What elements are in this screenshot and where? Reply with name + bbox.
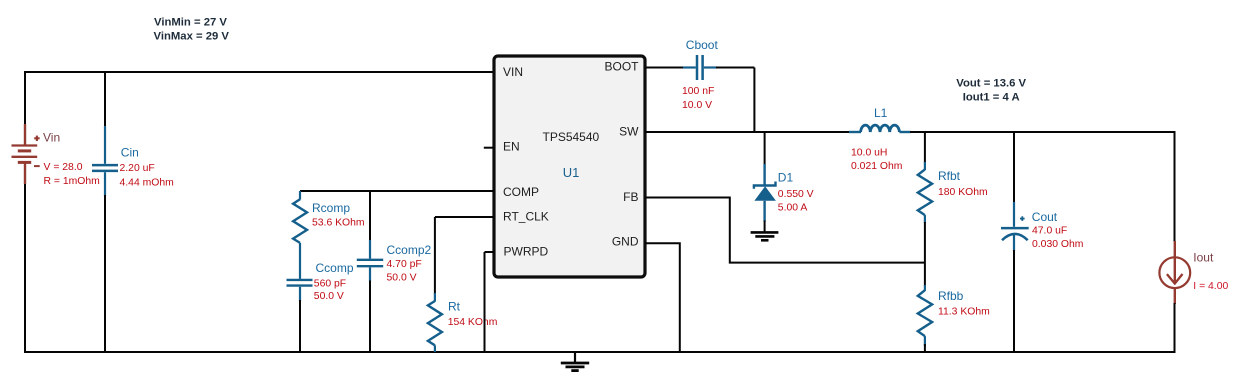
wire Vout rail (L1 to Iout) — [910, 131, 1175, 133]
wire Cout branch lower — [1013, 250, 1015, 352]
wire BOOT line left segment — [645, 67, 684, 69]
svg-text:Rcomp: Rcomp — [312, 201, 350, 215]
svg-text:Vin: Vin — [43, 131, 60, 145]
wire Cboot down to SW node — [753, 68, 755, 133]
svg-text:TPS54540: TPS54540 — [543, 130, 600, 144]
wire Rfbb top lead — [924, 285, 926, 291]
svg-text:Rt: Rt — [448, 299, 461, 313]
svg-text:50.0 V: 50.0 V — [387, 273, 417, 284]
op-amp U1 IC body TPS54540 — [494, 56, 645, 277]
wire Rfbb bottom lead — [924, 336, 926, 346]
inductor L1 — [849, 125, 911, 132]
wire Ccomp branch lower — [299, 300, 301, 352]
svg-text:50.0 V: 50.0 V — [314, 291, 344, 302]
svg-text:FB: FB — [623, 190, 638, 204]
svg-text:Cout: Cout — [1032, 210, 1058, 224]
svg-text:5.00 A: 5.00 A — [778, 202, 808, 213]
svg-text:D1: D1 — [778, 171, 794, 185]
wire FB line — [645, 198, 925, 263]
wire Ccomp2 branch upper — [369, 191, 371, 241]
wire GND line — [645, 243, 680, 352]
wire Rt branch upper — [434, 217, 436, 294]
wire RT_CLK line — [435, 216, 494, 218]
svg-text:0.021 Ohm: 0.021 Ohm — [851, 161, 902, 172]
svg-text:BOOT: BOOT — [604, 60, 639, 74]
wire Rfbt top lead — [924, 162, 926, 170]
svg-text:GND: GND — [612, 234, 639, 248]
svg-text:Ccomp2: Ccomp2 — [387, 243, 432, 257]
wire Iout branch upper — [1174, 131, 1176, 242]
wire D1 to ground — [764, 221, 766, 233]
svg-text:Ccomp: Ccomp — [316, 261, 354, 275]
svg-text:11.3 KOhm: 11.3 KOhm — [938, 307, 990, 318]
wire Rfbb to bottom rail — [924, 344, 926, 352]
svg-text:VIN: VIN — [503, 65, 523, 79]
wire Rfbt bottom lead — [924, 215, 926, 223]
current source Iout — [1159, 241, 1190, 304]
resistor Rt — [428, 301, 442, 345]
svg-text:100 nF: 100 nF — [682, 86, 714, 97]
wire Iout branch lower — [1174, 303, 1176, 353]
wire PWRPD branch down — [484, 252, 486, 352]
svg-text:R = 1mOhm: R = 1mOhm — [44, 176, 100, 187]
wire Cout branch upper — [1013, 132, 1015, 203]
svg-text:Rfbt: Rfbt — [938, 169, 961, 183]
svg-text:0.550 V: 0.550 V — [778, 189, 814, 200]
wire left rail lower (battery - to bottom rail) — [24, 183, 26, 352]
svg-text:0.030 Ohm: 0.030 Ohm — [1032, 239, 1083, 250]
svg-text:I = 4.00: I = 4.00 — [1193, 281, 1228, 292]
svg-text:L1: L1 — [874, 106, 888, 120]
wire Rcomp branch top lead — [299, 191, 301, 200]
wire BOOT line right segment — [716, 67, 754, 69]
wire Rfbt to FB node — [924, 222, 926, 286]
ground (center bottom) — [561, 352, 589, 371]
svg-text:Iout: Iout — [1193, 251, 1214, 265]
svg-text:VinMin = 27 V: VinMin = 27 V — [154, 17, 227, 29]
capacitor Cin — [92, 126, 118, 196]
capacitor Cout (polarized) — [1001, 202, 1029, 251]
wire SW line (IC to L1) — [645, 131, 850, 133]
ground (below D1) — [751, 232, 779, 240]
svg-text:PWRPD: PWRPD — [504, 244, 549, 258]
capacitor Ccomp2 — [357, 240, 383, 282]
svg-text:560 pF: 560 pF — [314, 278, 346, 289]
svg-text:10.0 uH: 10.0 uH — [851, 147, 887, 158]
capacitor Ccomp — [287, 280, 313, 302]
svg-text:EN: EN — [503, 139, 520, 153]
svg-text:U1: U1 — [563, 165, 580, 180]
wire Rcomp to Ccomp lead — [299, 243, 301, 279]
svg-text:10.0 V: 10.0 V — [682, 100, 712, 111]
wire D1 branch upper — [764, 132, 766, 165]
capacitor Cboot — [683, 55, 717, 80]
svg-text:53.6 KOhm: 53.6 KOhm — [312, 218, 365, 229]
wire Rt bottom lead — [434, 345, 436, 352]
svg-text:47.0 uF: 47.0 uF — [1032, 225, 1067, 236]
svg-text:Rfbb: Rfbb — [938, 289, 964, 303]
resistor Rfbb — [918, 290, 932, 336]
wire Ccomp2 branch lower — [369, 281, 371, 353]
wire bottom ground rail — [24, 351, 1175, 353]
battery source Vin — [12, 124, 40, 184]
wire EN stub — [484, 147, 494, 149]
resistor Rcomp — [293, 199, 307, 243]
svg-text:Iout1 = 4 A: Iout1 = 4 A — [963, 92, 1020, 104]
svg-text:4.70 pF: 4.70 pF — [387, 259, 422, 270]
svg-text:154 KOhm: 154 KOhm — [448, 317, 498, 328]
svg-text:Cboot: Cboot — [686, 38, 719, 52]
wire left rail upper (to battery +) — [24, 71, 26, 125]
svg-text:SW: SW — [619, 124, 639, 138]
svg-text:Vout = 13.6 V: Vout = 13.6 V — [956, 77, 1026, 89]
svg-text:COMP: COMP — [503, 185, 539, 199]
svg-text:Cin: Cin — [121, 145, 139, 159]
wire Rt top lead — [434, 293, 436, 302]
wire Cin branch lower — [104, 195, 106, 352]
wire PWRPD line — [485, 251, 495, 253]
wire top rail (Vin node to VIN pin) — [25, 71, 494, 73]
svg-text:VinMax = 29 V: VinMax = 29 V — [154, 30, 230, 42]
wire Cin branch upper — [104, 71, 106, 127]
svg-text:180 KOhm: 180 KOhm — [938, 187, 988, 198]
svg-text:RT_CLK: RT_CLK — [503, 209, 549, 223]
svg-text:V = 28.0: V = 28.0 — [44, 162, 83, 173]
svg-text:2.20 uF: 2.20 uF — [120, 163, 155, 174]
wire Rfbt branch upper — [924, 132, 926, 163]
svg-text:4.44 mOhm: 4.44 mOhm — [120, 177, 174, 188]
wire COMP line — [300, 190, 494, 192]
resistor Rfbt — [918, 169, 932, 215]
diode D1 (schottky) — [754, 164, 776, 222]
